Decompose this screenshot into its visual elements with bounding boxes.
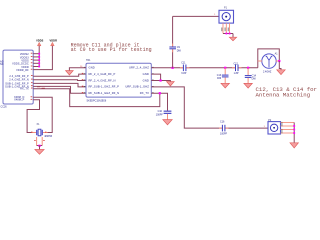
svg-text:CC26: CC26 [1, 106, 8, 109]
wire to P1 [173, 15, 219, 17]
svg-text:RF_SUB-1_GHZ_RF_N: RF_SUB-1_GHZ_RF_N [89, 91, 120, 95]
svg-text:RX_TX: RX_TX [20, 88, 29, 91]
TR1 pin numbers [84, 67, 154, 93]
wire 2.4GHz RF P [33, 74, 86, 76]
junction dot C9 branch [172, 67, 174, 69]
svg-text:2.4GHZ: 2.4GHZ [263, 71, 272, 74]
svg-text:2.4_GHZ_RF_P: 2.4_GHZ_RF_P [9, 75, 29, 78]
svg-text:GND: GND [89, 66, 95, 70]
svg-text:VDDR: VDDR [50, 39, 58, 42]
power VDDR [33, 39, 57, 69]
svg-text:DNI: DNI [177, 49, 181, 52]
svg-text:RF_SUB-1_GHZ_RF_P: RF_SUB-1_GHZ_RF_P [89, 85, 120, 89]
svg-text:SKEDPC15A2E06: SKEDPC15A2E06 [87, 99, 107, 102]
wire TR1 left GND [69, 68, 86, 71]
svg-text:P1: P1 [224, 7, 228, 10]
wire RX_TX TR1 [151, 93, 167, 110]
IC TR1 [86, 59, 151, 97]
capacitor C11 [180, 61, 189, 75]
svg-text:GND: GND [143, 78, 149, 82]
svg-text:VDDS: VDDS [36, 39, 44, 42]
svg-text:DNI: DNI [252, 78, 256, 81]
wire URF_SUB-1GHz to P2 [151, 87, 268, 128]
antenna pin stubs [258, 60, 262, 62]
svg-text:6.8P: 6.8P [181, 72, 186, 75]
svg-text:URF_2_4_GHZ: URF_2_4_GHZ [129, 66, 149, 70]
ground (P2) [290, 143, 298, 148]
svg-text:100PF: 100PF [220, 133, 228, 136]
wire TR1 right GND pins [151, 74, 160, 80]
svg-text:100PF: 100PF [156, 114, 164, 117]
svg-text:1: 1 [214, 14, 216, 16]
wire C9 branch vertical [172, 16, 174, 67]
ground (C14) [244, 83, 252, 88]
svg-text:Antenna Matching: Antenna Matching [256, 91, 311, 98]
ground (C10) [163, 120, 172, 125]
svg-text:RX_TX: RX_TX [140, 91, 149, 95]
wire X48M_N [33, 97, 52, 132]
capacitor C12 [232, 62, 242, 75]
U1 pin numbers [31, 53, 45, 100]
junction dot antenna [278, 60, 280, 62]
wire RX_TX long [33, 89, 160, 107]
ground (C13) [221, 83, 229, 88]
svg-text:C12: C12 [234, 62, 239, 65]
svg-text:RF_2_4_GHZ_RF_P: RF_2_4_GHZ_RF_P [89, 72, 116, 76]
junction dot RX_TX [159, 92, 161, 94]
capacitor C10 [156, 110, 172, 120]
ground (crystal) [35, 146, 44, 155]
wire SUB-1GHz RF P [33, 83, 86, 86]
ground (TR1 left) [66, 71, 74, 75]
wire SUB-1GHz RF N [33, 86, 86, 93]
IC U1 [0, 50, 33, 104]
TR1 left pin numbers [82, 72, 84, 75]
svg-text:C16: C16 [220, 121, 225, 124]
svg-text:URF_SUB-1_GHZ: URF_SUB-1_GHZ [125, 85, 149, 89]
svg-text:RF_2_4_GHZ_RF_N: RF_2_4_GHZ_RF_N [89, 78, 116, 82]
junction dot C14 [247, 67, 249, 69]
connector P1 [214, 7, 233, 35]
svg-text:2.4_GHZ_RF_N: 2.4_GHZ_RF_N [9, 79, 29, 82]
svg-text:48MHZ: 48MHZ [44, 135, 52, 138]
crystal X1 [31, 123, 48, 146]
capacitor C9 [169, 44, 181, 53]
capacitor C16 [219, 121, 228, 136]
svg-text:NC: NC [0, 63, 4, 66]
junction dot crystal gnd [38, 145, 40, 147]
svg-text:VDDR_RF: VDDR_RF [16, 69, 29, 72]
antenna A1 [262, 52, 278, 73]
svg-text:C11: C11 [181, 61, 186, 64]
junction dot GND [160, 79, 162, 81]
ground (TR1 right) [167, 82, 175, 86]
svg-text:at C9 to use P1 for testing: at C9 to use P1 for testing [71, 47, 152, 53]
antenna loop wire [258, 49, 280, 68]
connector P2 [264, 119, 295, 143]
wire 2.4GHz RF N [33, 79, 86, 82]
power VDDS [36, 39, 44, 66]
junction dot C13 [224, 67, 226, 69]
ground (A1) [277, 61, 285, 75]
wire X48M_P [27, 100, 39, 133]
capacitor C14 [245, 68, 257, 84]
svg-text:DNI: DNI [217, 77, 221, 80]
svg-text:X48M_P: X48M_P [14, 99, 25, 102]
junction dots VDDS bus [38, 53, 40, 68]
svg-text:TR1: TR1 [86, 59, 91, 62]
VDDS pin stubs [33, 54, 39, 67]
capacitor C13 [217, 68, 229, 84]
wire main RF feed [151, 67, 257, 69]
ground (P1) [229, 34, 236, 41]
svg-text:1.8P: 1.8P [234, 72, 239, 75]
svg-text:X1: X1 [37, 123, 41, 126]
svg-text:A1: A1 [275, 52, 279, 55]
svg-text:GND: GND [143, 72, 149, 76]
